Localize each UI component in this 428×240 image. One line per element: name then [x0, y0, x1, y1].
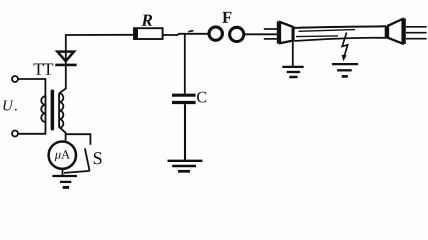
cable body inner bottom line: [296, 35, 338, 38]
cable plug right cone: [388, 19, 403, 44]
node junction tick: [188, 31, 193, 32]
switch S top bracket: [66, 134, 91, 145]
wire bottom input to primary: [18, 129, 45, 134]
fuse F circle 2: [230, 27, 244, 41]
cable plug left bar: [277, 21, 280, 43]
cable plug left prongs: [264, 28, 277, 30]
meter uA: [49, 142, 76, 169]
resistor R: [134, 28, 163, 39]
cable body inner top line: [299, 30, 356, 32]
switch S bottom wire: [64, 171, 90, 173]
wire fuse to cable plug: [244, 33, 277, 35]
cable sheath right cap: [385, 26, 388, 38]
wire diode to top bus corner: [66, 35, 134, 66]
transformer TT core: [51, 90, 55, 131]
switch S blade: [85, 148, 90, 171]
transformer TT primary winding: [41, 96, 45, 130]
label C: [197, 92, 206, 103]
capacitor C branch wire upper: [184, 34, 186, 93]
capacitor C branch wire lower: [184, 104, 186, 160]
ground below meter: [62, 169, 64, 176]
fuse F circle 1: [209, 27, 222, 40]
capacitor C: [172, 95, 196, 102]
cable plug right prongs: [406, 27, 427, 39]
cable body bottom edge: [294, 38, 386, 41]
wire resistor to fuse: [163, 34, 208, 35]
label R: [141, 15, 152, 26]
ground below cable left: [282, 67, 303, 77]
cable body top edge: [294, 26, 386, 28]
terminal bottom input: [12, 131, 18, 137]
cable sheath left cap: [292, 27, 295, 41]
label S: [94, 152, 102, 164]
label TT: [34, 63, 54, 74]
diode VD: [55, 52, 76, 65]
label F: [222, 12, 231, 23]
wire cable shield to ground: [292, 42, 294, 67]
terminal top input: [12, 76, 18, 82]
wire secondary top to diode: [59, 66, 66, 93]
wire top input to primary: [18, 79, 45, 96]
wire secondary bottom to meter: [59, 127, 65, 142]
transformer TT secondary winding: [59, 93, 63, 128]
label U.: [3, 101, 16, 111]
cable plug right bar: [402, 18, 406, 44]
breakdown arrow (lightning bolt): [342, 33, 348, 58]
ground below breakdown point: [332, 64, 358, 76]
ground below capacitor: [168, 161, 203, 172]
cable plug left cone: [280, 22, 293, 43]
